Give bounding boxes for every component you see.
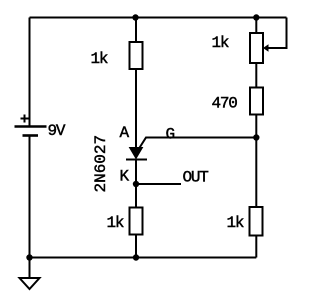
resistor R5 1k (bottom right) (227, 207, 263, 236)
node junction dot top middle (132, 14, 138, 20)
node junction dot top right (253, 14, 259, 20)
wire left rail upper (29, 18, 31, 127)
resistor R3 1k (bottom middle) (107, 208, 143, 235)
wire R5 to bottom rail (255, 236, 257, 258)
svg-text:1k: 1k (107, 214, 124, 232)
wire gate node to R5 (255, 138, 257, 208)
svg-text:9V: 9V (48, 122, 66, 140)
battery B1 9V (15, 115, 66, 141)
node junction dot gate (253, 134, 259, 140)
wire top rail (30, 17, 287, 19)
svg-text:1k: 1k (227, 214, 244, 232)
svg-text:G: G (166, 126, 175, 144)
resistor R1 1k (top middle) (91, 42, 143, 69)
wire middle column to R1 (135, 18, 137, 43)
wire pot to R4 (255, 63, 257, 88)
resistor R4 470 (right) (212, 88, 264, 115)
wire R4 to gate node (255, 114, 257, 138)
wire PUT cathode down (135, 160, 137, 208)
wire OUT (136, 183, 181, 185)
wire pot top (255, 18, 257, 34)
svg-text:470: 470 (212, 95, 238, 113)
wire bottom rail (30, 257, 257, 259)
wire pot wiper loop (268, 18, 287, 49)
wire gate G (139, 138, 256, 149)
wire R1 to PUT anode (135, 69, 137, 148)
node junction dot K/OUT (133, 181, 139, 187)
wire left rail lower (29, 136, 31, 258)
node junction dot bottom left (26, 254, 32, 260)
svg-text:1k: 1k (212, 34, 229, 52)
potentiometer R2 1k (top right) (212, 33, 269, 63)
ground (20, 278, 40, 289)
wire ground stem (29, 258, 31, 279)
node junction dot bottom middle (133, 254, 139, 260)
wire R3 to bottom rail (135, 235, 137, 258)
transistor Q1 2N6027 PUT (92, 135, 147, 193)
svg-text:1k: 1k (91, 50, 108, 68)
svg-text:OUT: OUT (183, 169, 209, 187)
svg-text:2N6027: 2N6027 (92, 135, 110, 193)
